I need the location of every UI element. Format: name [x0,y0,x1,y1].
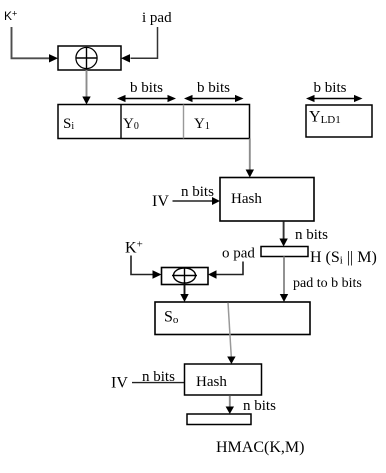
double arrow b bits 2 [184,95,244,102]
double arrow b bits 3 [306,95,363,102]
svg-text:HMAC(K,M): HMAC(K,M) [216,439,304,456]
svg-text:Hash: Hash [231,191,262,207]
svg-text:b bits: b bits [314,80,347,96]
So box [155,302,310,335]
svg-text:IV: IV [152,193,169,210]
arrowhead into bottom rect [226,407,234,415]
double arrow b bits 1 [117,95,176,102]
svg-text:n bits: n bits [243,398,276,414]
bottom small rect [187,414,251,425]
svg-text:H (Si || M): H (Si || M) [310,249,377,267]
arrowhead into XOR1 right [121,54,130,62]
arrowhead into XOR2 right [208,270,217,278]
svg-text:Hash: Hash [196,374,227,390]
arrowhead into Hash1 top [246,170,254,178]
XOR ellipse 2 [174,268,196,283]
wire block row to Hash1 [249,139,251,171]
svg-text:i pad: i pad [142,10,172,26]
svg-text:n bits: n bits [181,184,214,200]
svg-text:pad to b bits: pad to b bits [293,276,362,291]
arrowhead into small rect 1 [279,239,287,247]
wire Hash2 down [229,396,231,408]
block row rectangle Si|Y0|Y1 [58,105,250,139]
Hash box 2 [185,364,262,395]
XOR box 1 [58,46,121,70]
wire XOR1 to block row [86,70,88,97]
svg-text:b bits: b bits [197,80,230,96]
divider + wire So to Hash2 (gray slanted) [228,303,231,358]
arrowhead into So top right [280,294,288,302]
wire IV to Hash1 [173,200,213,202]
XOR box 2 [162,268,209,285]
wire small rect 1 to So [283,257,285,295]
divider Si/Y0 [120,105,122,139]
svg-text:o pad: o pad [222,246,255,262]
svg-text:n bits: n bits [295,227,328,243]
arrowhead into Hash1 left [212,197,220,205]
XOR circle 1 [76,47,97,68]
wire XOR2 to So [184,285,186,295]
wire Hash1 down [283,222,285,240]
wire K+ to XOR1 [12,27,50,58]
arrowhead into block row [82,97,90,105]
arrowhead into Hash2 top [227,357,235,365]
svg-text:b bits: b bits [130,80,163,96]
wire IV2 to Hash2 [132,382,185,384]
small rect H(Si||M) [261,247,308,257]
arrowhead into XOR1 left [49,54,58,62]
arrowhead into So top left [180,294,188,302]
arrowhead into XOR2 left [153,270,162,278]
svg-text:IV: IV [111,375,128,392]
Hash box 1 [220,178,314,222]
YLD1 box [306,105,372,137]
wire i pad to XOR1 [131,27,158,58]
divider Y0/Y1 (gray) [183,105,185,139]
wire o pad to XOR2 [216,262,243,275]
wire K+2 to XOR2 [131,256,153,275]
